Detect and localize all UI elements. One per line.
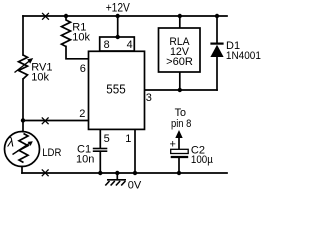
- resistor R1: [62, 16, 71, 47]
- svg-text:λ: λ: [7, 135, 14, 150]
- arrow to pin 8: [175, 130, 182, 149]
- svg-text:10k: 10k: [72, 32, 90, 44]
- node pin2 left: [21, 118, 25, 122]
- node D1 top: [215, 14, 219, 18]
- svg-text:4: 4: [127, 39, 133, 51]
- X mark on top rail: [42, 13, 49, 20]
- svg-text:10n: 10n: [76, 154, 94, 166]
- node R1 top: [64, 14, 68, 18]
- arrowhead LDR: [28, 141, 33, 146]
- svg-text:>60R: >60R: [166, 56, 193, 68]
- svg-text:8: 8: [104, 39, 110, 51]
- svg-text:pin 8: pin 8: [171, 118, 192, 130]
- svg-text:555: 555: [106, 83, 125, 97]
- wire pin 2 from left branch to 555: [23, 120, 89, 122]
- ground symbol: [105, 180, 126, 186]
- wire pin 3 output: [145, 89, 218, 91]
- wire LDR bottom to 0V rail: [21, 167, 23, 174]
- svg-text:1N4001: 1N4001: [226, 50, 261, 62]
- node ground: [115, 171, 119, 175]
- node 555 supply: [116, 14, 120, 18]
- IC U1 555 timer body: [89, 51, 145, 129]
- X mark on pin 2 wire: [42, 117, 49, 124]
- wire top +12V rail: [23, 15, 227, 17]
- wire bottom 0V rail: [22, 172, 227, 174]
- LDR (photoresistor in circle): [5, 132, 40, 167]
- svg-text:100µ: 100µ: [191, 154, 214, 166]
- svg-text:0V: 0V: [128, 180, 142, 191]
- svg-text:+: +: [170, 139, 176, 151]
- wire 555 supply pins 8,4 from rail: [117, 16, 119, 37]
- svg-text:2: 2: [79, 108, 85, 120]
- node supply box entry: [116, 35, 120, 39]
- svg-text:+12V: +12V: [106, 0, 130, 14]
- wire RLA top lead: [179, 16, 181, 28]
- wire left vertical from rail to RV1: [22, 16, 24, 55]
- 555 supply pin box: [100, 37, 135, 51]
- svg-text:3: 3: [146, 92, 152, 104]
- wire D1 cathode lead: [216, 16, 218, 43]
- svg-text:10k: 10k: [31, 71, 49, 83]
- wire R1 bottom lead: [66, 47, 89, 59]
- diode D1: [210, 44, 223, 57]
- node RLA top: [178, 14, 182, 18]
- wire C1 to 0V rail: [99, 151, 101, 173]
- wire RV1 to LDR: [22, 79, 24, 132]
- node C1 bottom: [98, 171, 102, 175]
- wire pin 5 to C1: [99, 130, 101, 149]
- node junction dots: [21, 14, 219, 175]
- capacitor C2 electrolytic: [171, 149, 189, 157]
- X mark on 0V rail: [42, 169, 49, 176]
- node pin1 bottom: [133, 171, 137, 175]
- wire pin 1 to 0V rail: [134, 130, 136, 174]
- node RLA pin3: [178, 88, 182, 92]
- wire C2 bottom lead: [178, 158, 180, 173]
- svg-text:1: 1: [125, 133, 131, 145]
- svg-text:LDR: LDR: [42, 147, 61, 159]
- svg-text:5: 5: [104, 133, 110, 145]
- node C2 bottom: [177, 171, 181, 175]
- svg-text:6: 6: [80, 63, 86, 75]
- arrowhead RV1: [27, 58, 33, 64]
- potentiometer RV1: [15, 55, 31, 79]
- relay RLA coil box: [159, 28, 201, 72]
- wire D1 anode lead: [216, 57, 218, 90]
- capacitor C1: [93, 149, 108, 152]
- wire RLA bottom lead: [179, 72, 181, 90]
- wire ground stub: [116, 173, 118, 180]
